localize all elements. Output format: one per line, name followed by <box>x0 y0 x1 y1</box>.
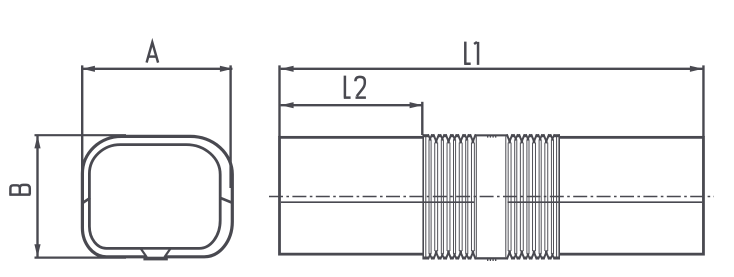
dimension B arrow bottom <box>34 244 40 257</box>
label B (rotated) <box>9 185 30 195</box>
dimension A extension line right <box>229 65 231 188</box>
tube body outline <box>280 137 704 254</box>
tube weld seam line left segment <box>281 201 475 203</box>
sleeve right edge <box>558 134 560 259</box>
tube cross-section outer wall <box>82 136 232 256</box>
label A <box>147 42 159 62</box>
sleeve corrugation right group rib lines <box>508 139 553 254</box>
dimension A arrow left <box>82 66 95 72</box>
dimension L2 arrow left <box>281 102 294 108</box>
sleeve middle band bottom <box>475 257 508 259</box>
dimension L2 line <box>281 104 423 106</box>
sleeve middle band mold ticks top <box>488 135 496 137</box>
dimension L1 extension line right <box>702 65 704 137</box>
dimension A arrow right <box>220 66 233 72</box>
dimension B arrow top <box>34 135 40 148</box>
seam joint left wall <box>83 198 90 203</box>
dimension L1 line <box>281 68 703 70</box>
dimension B extension line bottom <box>35 257 127 259</box>
sleeve corrugation left group rib lines <box>429 139 474 254</box>
centerline (dash-dot) <box>269 196 714 198</box>
sleeve corrugation right group bottom cap <box>508 257 561 260</box>
sleeve corrugation right group top cap <box>508 134 561 137</box>
sleeve middle band mold ticks bottom <box>488 259 496 261</box>
sleeve corrugation left group top cap <box>423 134 475 137</box>
label L1 <box>464 42 478 65</box>
dimension L2 arrow right <box>410 102 423 108</box>
dimension B extension line top <box>35 134 127 136</box>
sleeve left edge <box>422 134 424 259</box>
dimension A line <box>82 68 232 70</box>
dimension L2 extension line right <box>421 102 423 135</box>
sleeve corrugation left group bottom cap <box>423 257 475 260</box>
dimension L1 arrow left <box>281 66 294 72</box>
screw channel lower band <box>143 257 167 261</box>
screw channel left diagonal <box>141 248 147 257</box>
dimension L1 extension line left <box>278 65 280 137</box>
tube cross-section inner wall <box>89 145 220 249</box>
connector sleeve background <box>423 134 561 260</box>
tube weld seam line right segment <box>508 201 703 203</box>
seam joint right wall <box>221 198 232 202</box>
screw channel bottom (white cutout) <box>141 250 170 257</box>
label L2 <box>344 76 366 98</box>
node section-view <box>82 136 232 260</box>
sleeve middle band top <box>475 134 508 136</box>
dimension A extension line left <box>81 65 83 205</box>
dimension L1 arrow right <box>690 66 703 72</box>
sleeve middle band side lines <box>475 136 477 257</box>
screw channel right diagonal <box>164 248 170 257</box>
dimension B line <box>36 135 38 257</box>
